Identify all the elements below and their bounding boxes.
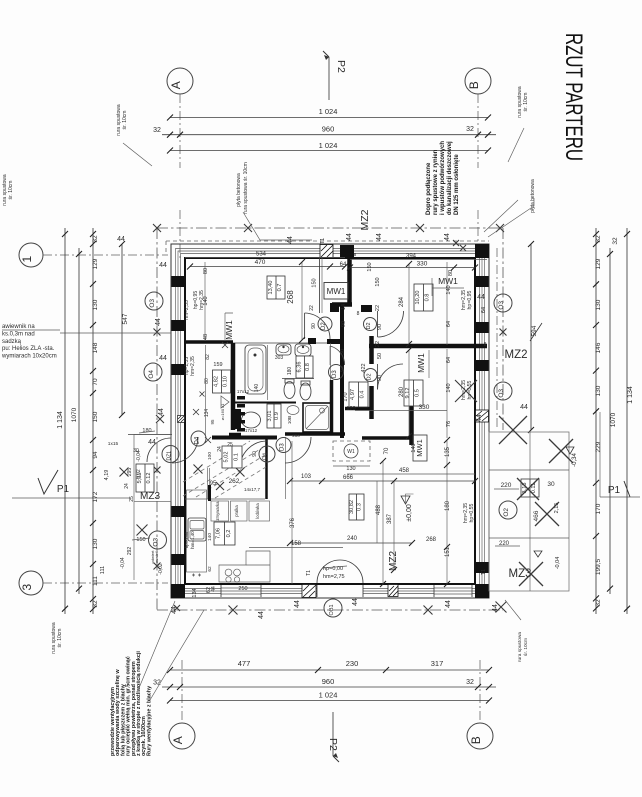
svg-text:70: 70 bbox=[92, 378, 99, 386]
wc basin 10B bbox=[287, 406, 299, 415]
interior wall below door bbox=[369, 386, 374, 419]
svg-text:230: 230 bbox=[346, 659, 359, 668]
interior wall hall vertical bbox=[347, 258, 352, 306]
svg-text:MZ3: MZ3 bbox=[509, 568, 532, 580]
interior wall wc top bbox=[233, 402, 296, 404]
svg-text:44: 44 bbox=[352, 598, 359, 606]
svg-text:i wpustów podwórzowych: i wpustów podwórzowych bbox=[440, 141, 446, 215]
svg-text:295: 295 bbox=[127, 468, 133, 477]
svg-text:90: 90 bbox=[311, 323, 317, 329]
svg-text:ø=160 x1: ø=160 x1 bbox=[220, 403, 225, 421]
svg-text:262: 262 bbox=[229, 478, 240, 485]
svg-text:0.5: 0.5 bbox=[415, 389, 421, 397]
hatched pier top wall bbox=[320, 245, 333, 258]
svg-text:O3: O3 bbox=[149, 299, 156, 308]
svg-text:130: 130 bbox=[595, 299, 602, 310]
svg-text:159: 159 bbox=[213, 362, 222, 368]
svg-text:44: 44 bbox=[294, 600, 301, 608]
window bottom wall left (kitchen) bbox=[221, 585, 261, 597]
svg-text:250: 250 bbox=[238, 586, 247, 592]
terrace MZ3 outline bbox=[489, 432, 569, 591]
interior wall shower west bbox=[330, 380, 334, 434]
svg-text:268: 268 bbox=[286, 290, 295, 304]
svg-text:90: 90 bbox=[252, 451, 258, 457]
svg-text:ks.0,3m nad: ks.0,3m nad bbox=[2, 331, 35, 337]
dim line 387 bbox=[393, 481, 395, 570]
room 0.11 label terrace bbox=[521, 479, 539, 497]
svg-text:-0,04: -0,04 bbox=[555, 557, 561, 570]
radiator bars wc bbox=[237, 396, 245, 432]
svg-text:24: 24 bbox=[124, 483, 130, 489]
svg-text:hm=2,35: hm=2,35 bbox=[190, 356, 196, 376]
svg-text:śr. 10cm: śr. 10cm bbox=[122, 111, 128, 130]
svg-text:666: 666 bbox=[343, 475, 354, 481]
door arc room0.7-hall bbox=[305, 313, 330, 339]
svg-text:4,97: 4,97 bbox=[350, 389, 356, 400]
svg-text:48: 48 bbox=[203, 334, 209, 340]
svg-text:P1: P1 bbox=[57, 484, 70, 495]
svg-text:śr. 10cm: śr. 10cm bbox=[523, 638, 529, 656]
svg-text:140: 140 bbox=[254, 384, 260, 393]
porch lower terrace bbox=[133, 502, 135, 580]
svg-text:Dopro podłączone: Dopro podłączone bbox=[426, 162, 432, 215]
svg-text:sadzką: sadzką bbox=[2, 339, 22, 345]
svg-text:111: 111 bbox=[100, 566, 106, 574]
svg-text:44: 44 bbox=[444, 233, 451, 241]
svg-text:284: 284 bbox=[399, 296, 405, 307]
svg-text:1 024: 1 024 bbox=[319, 107, 338, 116]
svg-text:150: 150 bbox=[367, 262, 373, 271]
svg-text:172: 172 bbox=[92, 491, 99, 502]
svg-text:B: B bbox=[469, 736, 483, 744]
svg-text:4,19: 4,19 bbox=[104, 470, 110, 481]
svg-text:1 024: 1 024 bbox=[319, 691, 338, 700]
interior wall main horizontal bbox=[369, 344, 487, 349]
room 0.3 label bbox=[349, 494, 364, 520]
dim line 280 room 0.5 bbox=[408, 350, 410, 436]
svg-text:466: 466 bbox=[533, 510, 540, 521]
entrance gap bottom wall bbox=[317, 585, 363, 597]
svg-text:4,82: 4,82 bbox=[213, 376, 219, 387]
dim right 1070 bbox=[609, 248, 611, 594]
svg-text:awiewnik na: awiewnik na bbox=[2, 324, 35, 330]
dim line 284 room 0.8 bbox=[408, 264, 410, 344]
wash basin 1 bbox=[276, 344, 291, 355]
svg-text:hp=0,55: hp=0,55 bbox=[469, 503, 475, 522]
bathtub bbox=[245, 345, 266, 394]
svg-text:82: 82 bbox=[205, 354, 211, 360]
svg-text:MW1: MW1 bbox=[416, 353, 426, 373]
door arc DZ1 bbox=[147, 438, 171, 462]
porch room outline bbox=[134, 435, 171, 502]
svg-text:MW1: MW1 bbox=[438, 276, 458, 286]
svg-text:MZ2: MZ2 bbox=[388, 551, 399, 571]
svg-text:-0,02: -0,02 bbox=[158, 563, 164, 575]
svg-text:960: 960 bbox=[322, 677, 335, 686]
svg-text:B: B bbox=[467, 81, 481, 89]
svg-text:O3: O3 bbox=[498, 301, 505, 310]
svg-text:25: 25 bbox=[129, 496, 135, 502]
skylight W1 dashed box bbox=[333, 441, 370, 461]
svg-text:0.4: 0.4 bbox=[360, 391, 366, 399]
svg-text:hm=2,35: hm=2,35 bbox=[199, 290, 205, 310]
wash basin 2 bbox=[295, 344, 311, 356]
svg-text:hp=0,95: hp=0,95 bbox=[467, 290, 473, 309]
room 0.5 label bbox=[404, 380, 423, 406]
door arc stairs bbox=[240, 441, 267, 468]
svg-text:lodówka: lodówka bbox=[255, 503, 260, 519]
toilet 1 bbox=[285, 379, 294, 383]
svg-text:MW1: MW1 bbox=[224, 320, 234, 340]
door arc D3 to room bbox=[285, 437, 311, 463]
dim line 268 room 0.7 bbox=[301, 262, 303, 340]
svg-text:44: 44 bbox=[158, 408, 165, 416]
svg-text:376: 376 bbox=[290, 517, 296, 528]
svg-text:220: 220 bbox=[501, 482, 512, 489]
svg-text:32: 32 bbox=[92, 600, 99, 608]
small x marks along walls bbox=[222, 342, 228, 348]
svg-text:MZ2: MZ2 bbox=[505, 349, 528, 361]
porch dim 180 bbox=[128, 434, 172, 436]
svg-text:180: 180 bbox=[287, 367, 293, 376]
svg-text:44: 44 bbox=[477, 294, 485, 301]
svg-text:44: 44 bbox=[117, 236, 125, 243]
svg-text:130: 130 bbox=[346, 466, 355, 472]
marker P1 left bbox=[38, 470, 58, 494]
interior wall stairs east bbox=[265, 439, 268, 499]
kitchen east wall bbox=[285, 437, 287, 499]
svg-text:0.1: 0.1 bbox=[233, 453, 239, 461]
svg-text:22: 22 bbox=[309, 305, 315, 311]
dim left 1134 bbox=[64, 228, 66, 614]
dim 594 right (struck) bbox=[530, 244, 532, 430]
svg-text:477: 477 bbox=[238, 659, 251, 668]
room 0.4 label bbox=[349, 382, 368, 407]
svg-text:64: 64 bbox=[481, 307, 487, 313]
dim right 1134 bbox=[626, 228, 628, 614]
svg-text:130: 130 bbox=[92, 538, 99, 549]
window marker O2 right bottom bbox=[499, 501, 517, 519]
svg-text:394: 394 bbox=[406, 254, 417, 260]
door marker DZ1 bbox=[162, 446, 179, 463]
entrance double door arcs bbox=[317, 560, 340, 583]
svg-text:64: 64 bbox=[446, 321, 452, 327]
svg-text:100: 100 bbox=[207, 452, 213, 460]
install line bbox=[282, 378, 314, 380]
svg-text:32: 32 bbox=[92, 235, 99, 243]
svg-text:80: 80 bbox=[203, 268, 209, 274]
svg-text:-0,34: -0,34 bbox=[572, 453, 578, 467]
svg-text:64: 64 bbox=[340, 262, 347, 268]
svg-text:6,36: 6,36 bbox=[297, 362, 303, 373]
svg-text:103: 103 bbox=[301, 474, 312, 480]
svg-text:wymiarach 10x20cm: wymiarach 10x20cm bbox=[1, 354, 57, 360]
svg-text:hm=2,75: hm=2,75 bbox=[323, 574, 345, 580]
svg-text:64: 64 bbox=[446, 357, 452, 363]
svg-text:oswietl: oswietl bbox=[154, 551, 159, 563]
left inner chain bbox=[204, 262, 206, 341]
roof edge dashed above wall bbox=[166, 241, 489, 255]
bath divider line bbox=[267, 345, 269, 400]
svg-text:547: 547 bbox=[122, 313, 129, 324]
svg-text:150: 150 bbox=[136, 537, 145, 543]
axis 3 left bbox=[19, 571, 43, 595]
room 0.7 label bbox=[267, 276, 285, 299]
svg-text:32: 32 bbox=[466, 126, 474, 133]
svg-text:-0,02: -0,02 bbox=[136, 469, 142, 481]
axis A top bbox=[167, 68, 193, 94]
top room dim lines bbox=[185, 257, 345, 259]
hatched pier right wall bbox=[476, 410, 489, 422]
svg-text:O3: O3 bbox=[153, 538, 160, 547]
svg-text:90: 90 bbox=[341, 321, 347, 327]
svg-text:32: 32 bbox=[466, 679, 474, 686]
svg-text:30: 30 bbox=[547, 481, 555, 488]
window marker O3 right lower bbox=[494, 382, 512, 400]
door marker O2 mid bbox=[364, 318, 377, 331]
svg-text:90: 90 bbox=[340, 366, 346, 372]
dims inside room 0.3 bbox=[290, 480, 475, 482]
svg-text:229: 229 bbox=[595, 441, 602, 452]
svg-text:134: 134 bbox=[204, 409, 210, 418]
dim top 1024 lower bbox=[170, 150, 488, 152]
svg-text:1 134: 1 134 bbox=[627, 386, 634, 404]
svg-text:8: 8 bbox=[484, 342, 487, 348]
svg-text:140: 140 bbox=[207, 533, 213, 541]
corner piers bbox=[171, 244, 489, 598]
svg-text:1070: 1070 bbox=[71, 407, 78, 422]
svg-text:8: 8 bbox=[357, 311, 360, 317]
svg-text:44: 44 bbox=[492, 604, 499, 612]
dim top 1024 upper bbox=[170, 117, 488, 119]
dim bottom 477/230/317 bbox=[170, 669, 489, 671]
svg-text:148: 148 bbox=[92, 342, 99, 353]
interior wall hall west x342 bbox=[340, 305, 344, 438]
door marker D4 interior bbox=[191, 431, 206, 446]
svg-text:32: 32 bbox=[153, 127, 161, 134]
svg-text:44: 44 bbox=[258, 611, 265, 619]
interior wall stairs bottom bbox=[185, 498, 265, 500]
svg-text:Rury wentylacyjne z blachy: Rury wentylacyjne z blachy bbox=[146, 686, 152, 756]
masonry piers left wall bbox=[172, 276, 185, 287]
door marker D2 bbox=[318, 317, 332, 331]
dim left 1070 bbox=[78, 248, 80, 594]
stairs wall stub bbox=[208, 485, 211, 501]
window marker O3 left upper bbox=[145, 292, 163, 310]
masonry piers right wall bbox=[476, 276, 489, 287]
svg-text:170: 170 bbox=[343, 392, 349, 401]
room 0.10 label bbox=[213, 370, 231, 393]
svg-text:80: 80 bbox=[448, 270, 454, 276]
svg-text:286: 286 bbox=[292, 433, 300, 438]
window marker O3 left lower bbox=[149, 531, 167, 549]
svg-text:158: 158 bbox=[291, 541, 302, 547]
svg-text:130: 130 bbox=[92, 299, 99, 310]
svg-text:DN 125 mm osłonięte: DN 125 mm osłonięte bbox=[454, 154, 460, 215]
svg-text:P2: P2 bbox=[335, 60, 347, 73]
top right room chains bbox=[350, 259, 487, 261]
axis 1 left bbox=[19, 243, 43, 267]
interior wall bath west bbox=[231, 343, 236, 430]
svg-text:95: 95 bbox=[210, 419, 215, 425]
svg-text:44: 44 bbox=[520, 404, 528, 411]
svg-text:90: 90 bbox=[377, 375, 383, 381]
wc toilet bbox=[234, 409, 241, 429]
svg-text:303: 303 bbox=[275, 355, 284, 361]
svg-text:pralka: pralka bbox=[234, 505, 239, 517]
svg-text:140: 140 bbox=[411, 443, 417, 452]
dim 547 left bbox=[121, 244, 123, 415]
svg-text:76: 76 bbox=[446, 421, 452, 427]
entry hall dashed hatch bbox=[183, 441, 266, 498]
svg-text:44: 44 bbox=[155, 318, 162, 326]
svg-text:44: 44 bbox=[376, 233, 383, 241]
svg-text:8: 8 bbox=[354, 252, 357, 257]
svg-text:32: 32 bbox=[595, 599, 602, 607]
svg-text:111: 111 bbox=[92, 576, 99, 586]
svg-text:do kanalizacji deszczowej: do kanalizacji deszczowej bbox=[447, 141, 453, 215]
piers bottom wall bbox=[302, 585, 316, 598]
svg-text:rura spustowa: rura spustowa bbox=[517, 632, 523, 662]
svg-text:T1: T1 bbox=[306, 570, 312, 576]
axis A bottom bbox=[169, 723, 195, 749]
svg-text:387: 387 bbox=[387, 513, 393, 524]
wall inner layer lines bbox=[176, 249, 485, 594]
svg-text:94: 94 bbox=[92, 451, 99, 459]
vent flag bbox=[221, 396, 229, 408]
partition room0.7 east bbox=[319, 258, 321, 313]
black seg top wall at hall bbox=[340, 245, 354, 258]
svg-text:D2: D2 bbox=[366, 322, 372, 329]
svg-text:1: 1 bbox=[20, 256, 34, 263]
svg-text:180: 180 bbox=[142, 428, 151, 434]
svg-text:140: 140 bbox=[446, 383, 452, 392]
room 0.8 label bbox=[414, 284, 433, 311]
level triangle bbox=[566, 447, 574, 454]
svg-text:rura spustowa śr. 10cm: rura spustowa śr. 10cm bbox=[243, 162, 249, 214]
kitchen counter left bbox=[187, 490, 207, 572]
svg-text:hm=2,35: hm=2,35 bbox=[184, 300, 190, 320]
svg-text:T1: T1 bbox=[320, 238, 326, 244]
entry room label bbox=[222, 446, 242, 468]
svg-text:DZ1: DZ1 bbox=[167, 451, 173, 461]
window bottom wall right bbox=[434, 585, 472, 597]
room 0.9 label bbox=[267, 404, 281, 428]
svg-text:170: 170 bbox=[595, 503, 602, 514]
terrace axis line right bbox=[496, 248, 498, 428]
svg-text:32: 32 bbox=[595, 235, 602, 243]
svg-text:140: 140 bbox=[446, 285, 452, 294]
interior wall small horiz bbox=[332, 302, 352, 307]
svg-text:O4: O4 bbox=[148, 370, 155, 379]
svg-text:D2: D2 bbox=[321, 322, 327, 330]
svg-text:62: 62 bbox=[206, 587, 212, 593]
svg-text:50: 50 bbox=[340, 349, 346, 355]
svg-text:30: 30 bbox=[133, 448, 139, 454]
svg-text:A: A bbox=[171, 736, 185, 744]
svg-text:±0,00: ±0,00 bbox=[406, 504, 413, 522]
dim bottom 1024 bbox=[170, 700, 489, 702]
svg-text:0.12: 0.12 bbox=[146, 473, 152, 484]
marker OB1 bottom bbox=[324, 599, 342, 617]
svg-text:3: 3 bbox=[20, 584, 34, 591]
svg-text:1x15: 1x15 bbox=[108, 441, 119, 447]
room 0.8 bath label box bbox=[296, 356, 313, 378]
svg-text:240: 240 bbox=[347, 536, 358, 542]
svg-text:44: 44 bbox=[476, 414, 483, 422]
svg-text:22: 22 bbox=[375, 305, 381, 311]
svg-text:44: 44 bbox=[171, 606, 178, 614]
svg-text:0.8: 0.8 bbox=[425, 294, 431, 302]
dim left detailed chain bbox=[92, 228, 94, 614]
svg-text:W1: W1 bbox=[347, 449, 355, 455]
svg-text:280: 280 bbox=[399, 386, 405, 397]
svg-text:0,2: 0,2 bbox=[226, 530, 232, 538]
svg-text:O3: O3 bbox=[498, 389, 505, 398]
svg-text:14: 14 bbox=[341, 304, 347, 310]
svg-text:pu: Helios ZLA -sta.: pu: Helios ZLA -sta. bbox=[2, 346, 55, 352]
svg-text:hp=0,95: hp=0,95 bbox=[184, 531, 189, 548]
svg-text:OB1: OB1 bbox=[329, 604, 335, 615]
svg-text:10,20: 10,20 bbox=[415, 291, 421, 305]
stove burners bbox=[225, 569, 232, 576]
svg-text:22: 22 bbox=[375, 341, 381, 347]
svg-text:0.3: 0.3 bbox=[357, 503, 363, 511]
dim bottom 960/32 bbox=[162, 686, 496, 688]
svg-text:0.10: 0.10 bbox=[222, 376, 228, 387]
kitchen sink double bowl bbox=[188, 518, 206, 541]
partition entry/kitchen bbox=[207, 468, 209, 499]
svg-text:zmywarka: zmywarka bbox=[215, 501, 220, 521]
svg-text:268: 268 bbox=[426, 537, 437, 543]
svg-text:13,40: 13,40 bbox=[268, 281, 274, 295]
svg-text:3,01: 3,01 bbox=[267, 411, 273, 422]
interior wall band bottom segs bbox=[229, 433, 241, 437]
dim line 488 bbox=[382, 461, 384, 584]
svg-text:62: 62 bbox=[207, 566, 213, 572]
svg-text:317: 317 bbox=[431, 659, 444, 668]
svg-text:50: 50 bbox=[377, 353, 383, 359]
room 0.2 label bbox=[214, 522, 235, 545]
svg-text:0.9: 0.9 bbox=[274, 412, 280, 420]
svg-text:rury spustowe z rynien: rury spustowe z rynien bbox=[433, 149, 439, 215]
svg-text:470: 470 bbox=[255, 259, 266, 266]
svg-text:199,5: 199,5 bbox=[595, 558, 602, 575]
axis B bottom bbox=[467, 723, 493, 749]
svg-text:44: 44 bbox=[148, 439, 156, 446]
svg-text:180: 180 bbox=[445, 500, 451, 511]
exterior wall outlines bbox=[171, 244, 489, 598]
entry wall top bbox=[212, 436, 277, 440]
door jamb stub bbox=[361, 305, 372, 312]
svg-text:458: 458 bbox=[399, 468, 410, 474]
shower bbox=[303, 403, 331, 432]
svg-text:O2: O2 bbox=[503, 508, 510, 517]
svg-text:135: 135 bbox=[445, 446, 451, 457]
door arc hall-room0.8 bbox=[378, 311, 404, 337]
door marker D2b bbox=[364, 369, 377, 382]
dim top 960/32 bbox=[162, 134, 496, 136]
interior wall above door bbox=[369, 336, 374, 364]
svg-text:129: 129 bbox=[595, 258, 602, 269]
svg-text:130: 130 bbox=[595, 385, 602, 396]
svg-text:D2: D2 bbox=[367, 373, 373, 380]
svg-text:44: 44 bbox=[445, 600, 452, 608]
svg-text:D3: D3 bbox=[280, 443, 286, 451]
svg-text:44: 44 bbox=[159, 262, 167, 269]
svg-text:44: 44 bbox=[159, 355, 167, 362]
svg-text:śr. 10cm: śr. 10cm bbox=[57, 629, 63, 648]
